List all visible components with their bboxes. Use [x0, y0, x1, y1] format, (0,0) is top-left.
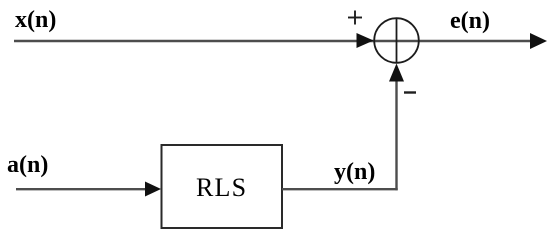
arrowhead: + input into summing junction: [357, 33, 374, 48]
wire: a(n) input line into RLS block: [16, 188, 148, 190]
arrowhead: e(n) output arrow: [530, 33, 547, 49]
block U1: RLS filter: [162, 145, 283, 228]
wire: RLS output y(n) to feedback corner: [282, 188, 398, 190]
svg-text:a(n): a(n): [7, 152, 48, 178]
wire: x(n) signal line to output e(n): [14, 40, 533, 42]
svg-text:RLS: RLS: [196, 173, 247, 202]
label + (plus sign at summer input): [348, 11, 362, 25]
summing junction (adder): [374, 18, 419, 63]
svg-text:x(n): x(n): [15, 7, 56, 33]
label - (minus sign at summer input): [404, 91, 416, 93]
arrowhead: - input into summing junction: [389, 64, 404, 82]
svg-text:e(n): e(n): [450, 8, 490, 34]
arrowhead: into RLS block: [145, 182, 161, 197]
svg-text:y(n): y(n): [334, 159, 375, 185]
wire: feedback y(n) vertical up into summer: [395, 80, 397, 190]
